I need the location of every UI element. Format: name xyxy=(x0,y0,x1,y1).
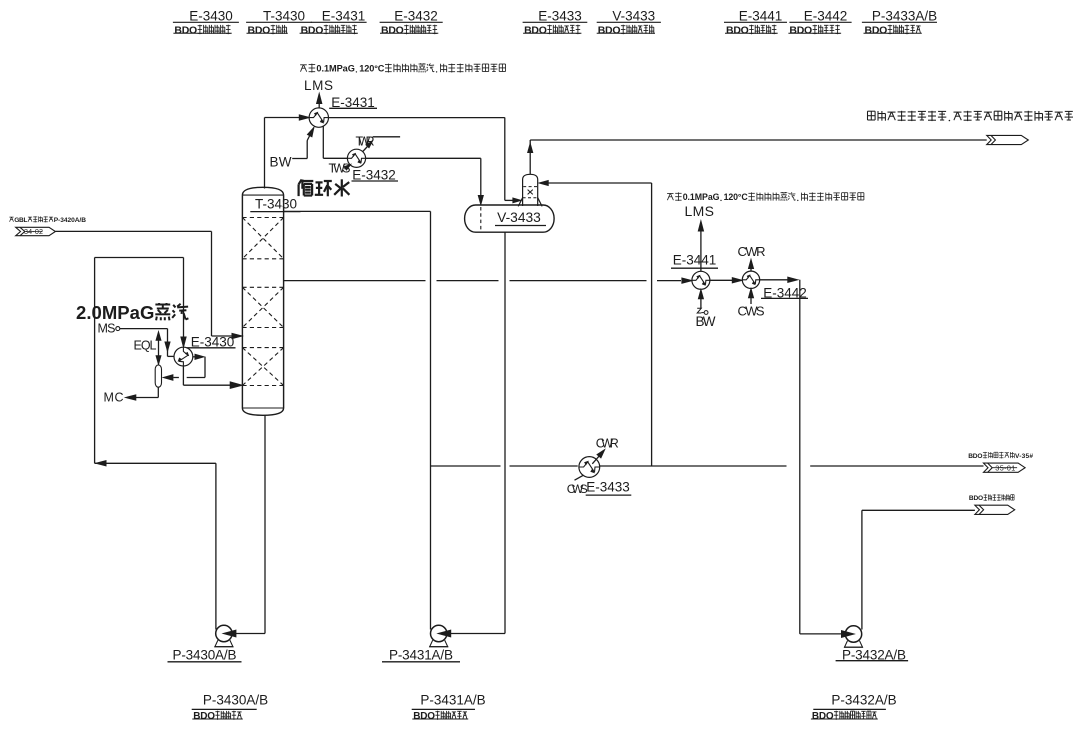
svg-text:0.1MPaG: 0.1MPaG xyxy=(316,64,355,74)
svg-text:120°C: 120°C xyxy=(724,192,749,202)
svg-text:E-3442: E-3442 xyxy=(804,9,848,24)
svg-text:BDO: BDO xyxy=(248,24,271,36)
svg-text:BDO: BDO xyxy=(193,711,215,722)
svg-text:TWS: TWS xyxy=(329,161,351,175)
svg-text:2.0MPaG: 2.0MPaG xyxy=(76,302,154,323)
svg-text:P-3432A/B: P-3432A/B xyxy=(831,693,896,708)
svg-text:MS: MS xyxy=(98,321,116,335)
svg-text:E-3433: E-3433 xyxy=(538,9,582,24)
svg-text:BW: BW xyxy=(696,314,716,329)
svg-text:P-3430A/B: P-3430A/B xyxy=(203,693,268,708)
svg-text:CWS: CWS xyxy=(738,303,765,318)
svg-text:V-35#: V-35# xyxy=(1015,453,1033,460)
svg-text:E-3433: E-3433 xyxy=(586,480,630,495)
svg-text:CWR: CWR xyxy=(596,437,619,451)
svg-text:BDO: BDO xyxy=(381,24,404,36)
svg-text:T-3430: T-3430 xyxy=(255,196,297,211)
svg-text:120°C: 120°C xyxy=(359,64,385,74)
svg-text:P-3431A/B: P-3431A/B xyxy=(420,693,485,708)
svg-text:BDO: BDO xyxy=(726,24,749,36)
svg-text:P-3433A/B: P-3433A/B xyxy=(872,9,937,24)
svg-text:T-3430: T-3430 xyxy=(263,9,305,24)
svg-text:E-3441: E-3441 xyxy=(739,9,783,24)
svg-text:BDO: BDO xyxy=(301,24,324,36)
svg-text:BDO: BDO xyxy=(969,495,983,502)
svg-text:BDO: BDO xyxy=(865,24,888,36)
svg-text:BDO: BDO xyxy=(789,24,812,36)
svg-text:CWR: CWR xyxy=(738,244,766,259)
svg-text:E-3430: E-3430 xyxy=(189,9,233,24)
svg-text:BDO: BDO xyxy=(968,453,982,460)
svg-text:E-3431: E-3431 xyxy=(322,9,366,24)
svg-text:BW: BW xyxy=(270,155,292,170)
svg-text:MC: MC xyxy=(104,391,124,405)
svg-text:P-3420A/B: P-3420A/B xyxy=(54,217,87,224)
svg-text:BDO: BDO xyxy=(524,24,547,36)
svg-text:V-3433: V-3433 xyxy=(612,9,655,24)
svg-text:BDO: BDO xyxy=(598,24,621,36)
svg-text:BDO: BDO xyxy=(812,711,834,722)
svg-text:E-3432: E-3432 xyxy=(394,9,438,24)
svg-text:E-3431: E-3431 xyxy=(331,95,375,110)
svg-text:V-3433: V-3433 xyxy=(497,210,541,225)
svg-text:BDO: BDO xyxy=(174,24,197,36)
svg-text:TWR: TWR xyxy=(356,135,375,149)
svg-text:GBL: GBL xyxy=(14,217,27,224)
svg-text:BDO: BDO xyxy=(413,711,435,722)
svg-text:EQL: EQL xyxy=(134,338,157,352)
svg-text:LMS: LMS xyxy=(685,203,715,219)
svg-text:LMS: LMS xyxy=(304,78,333,93)
svg-text:0.1MPaG: 0.1MPaG xyxy=(683,192,720,202)
svg-text:P-3431A/B: P-3431A/B xyxy=(389,647,453,662)
svg-text:CWS: CWS xyxy=(567,482,588,496)
svg-text:E-3441: E-3441 xyxy=(673,252,717,267)
svg-text:P-3430A/B: P-3430A/B xyxy=(173,647,237,662)
